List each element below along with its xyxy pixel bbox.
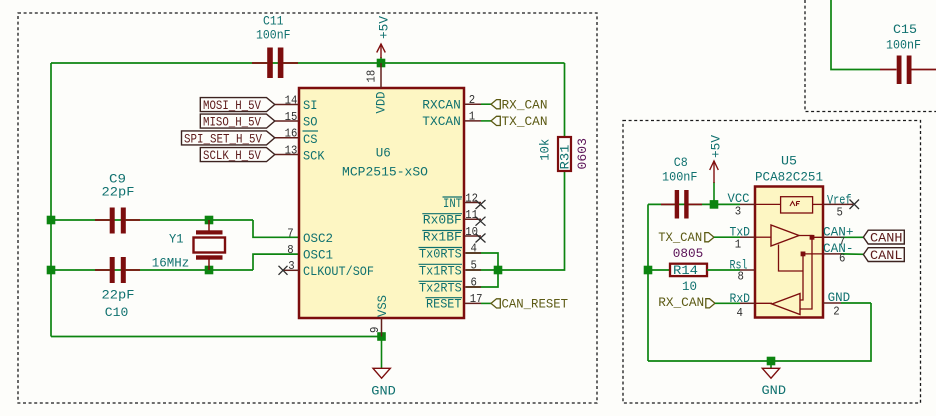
global label CAN_RESET [491,297,568,312]
svg-text:C15: C15 [893,22,917,37]
pin 7 CAN+ [823,224,864,248]
svg-text:VDD: VDD [373,91,388,113]
IC U5 PCA82C251 body [755,187,823,318]
sheet border top-right dashed box (clipped) [805,0,936,112]
IC U6 MCP2515 body [299,88,464,318]
pin 4 RxD [730,291,756,320]
svg-text:TX_CAN: TX_CAN [658,230,702,245]
pin 8 OSC1 [287,243,333,263]
svg-text:16: 16 [285,127,298,141]
pin 1 TxD [730,224,756,251]
svg-text:3: 3 [735,205,741,219]
svg-text:7: 7 [287,226,293,240]
svg-text:MOSI_H_5V: MOSI_H_5V [203,98,261,113]
wire top +5V rail [51,62,565,64]
svg-text:4: 4 [737,306,743,320]
svg-text:+5V: +5V [377,16,392,39]
svg-text:6: 6 [839,252,845,266]
svg-text:CAN_RESET: CAN_RESET [502,297,569,312]
hierarchical label MISO_H_5V [200,114,274,129]
svg-text:SCK: SCK [303,149,325,164]
svg-text:2: 2 [833,305,839,319]
pin 9 VSS [368,295,390,337]
pin 6 CAN- [823,241,864,266]
wire OSC1 link [253,254,299,270]
capacitor C11 [252,13,298,78]
svg-text:16MHz: 16MHz [152,256,190,271]
svg-text:100nF: 100nF [256,28,291,43]
svg-text:6: 6 [471,276,477,290]
svg-text:MISO_H_5V: MISO_H_5V [203,115,261,130]
resistor R31 [538,137,591,171]
svg-text:U6: U6 [376,145,391,160]
global label RX_CAN (right) [658,295,740,310]
svg-text:CLKOUT/SOF: CLKOUT/SOF [303,264,374,279]
svg-text:RXCAN: RXCAN [422,97,461,112]
U5 internal driver triangle [755,225,823,271]
svg-text:C11: C11 [263,13,284,28]
pin 14 SI [275,93,318,113]
svg-text:U5: U5 [781,153,797,168]
pin 17 RESET [426,292,492,312]
global label Rx_CAN [491,97,548,112]
svg-text:2: 2 [469,93,475,107]
svg-text:22pF: 22pF [102,288,135,303]
pin 3 CLKOUT/SOF (no connect) [279,259,375,279]
capacitor C15 [880,22,936,84]
wire left vertical [50,63,52,337]
pin 11 Rx0BF (no connect) [422,208,485,227]
pin 2 RXCAN [422,93,491,112]
svg-text:MCP2515-xSO: MCP2515-xSO [342,164,428,179]
junction C9 left [47,216,56,225]
pin 18 VDD [365,63,389,114]
svg-text:17: 17 [470,292,483,306]
sheet border left dashed box [18,13,597,403]
junction R14 left [644,266,653,275]
wire VCC [714,203,740,205]
svg-text:100nF: 100nF [662,170,698,185]
pin 3 VCC [728,191,756,219]
svg-text:Y1: Y1 [169,231,184,246]
pin 5 Tx1RTS [419,259,482,279]
pin 8 Rs [730,258,756,284]
svg-text:VSS: VSS [375,295,390,317]
power +5V (left) [377,16,392,63]
hierarchical label CANL [863,248,904,263]
svg-text:GND: GND [371,384,396,399]
svg-text:14: 14 [285,93,298,107]
svg-text:15: 15 [285,110,298,124]
ground GND (left) [371,337,396,399]
pin 7 OSC2 [287,226,333,246]
svg-text:TX_CAN: TX_CAN [502,114,548,129]
junction VSS [377,332,386,341]
hierarchical label SCLK_H_5V [200,148,274,163]
pin 13 SCK [275,143,325,163]
wire C9 row to crystal top [51,219,253,221]
svg-text:TXCAN: TXCAN [422,114,461,129]
wire R31 top drop [564,63,566,138]
ground GND (right) [762,361,787,398]
junction GND bottom (U5) [767,357,776,366]
svg-text:RxD: RxD [730,291,751,306]
junction crystal top [205,216,214,225]
svg-text:Rx1BF: Rx1BF [423,229,462,244]
svg-text:3: 3 [288,259,294,273]
sheet border right dashed box (CAN transceiver) [623,121,921,404]
svg-text:C8: C8 [674,155,688,170]
svg-text:9: 9 [368,327,382,333]
global label TX_CAN (right) [658,230,740,245]
svg-text:8: 8 [738,270,744,284]
wire bottom VSS return [51,336,382,338]
svg-text:GND: GND [762,383,787,398]
svg-text:OSC2: OSC2 [303,231,333,246]
junction Tx1RTS [494,266,503,275]
pin 10 Rx1BF (no connect) [422,225,485,244]
pin 12 INT (no connect) [443,192,486,211]
svg-text:1: 1 [469,110,475,124]
U5 internal receiver triangle [755,237,823,314]
svg-text:10: 10 [682,279,697,294]
svg-text:0603: 0603 [575,138,590,170]
wire bottom GND return (U5) [648,303,871,361]
junction C8 / +5V / VCC [710,200,719,209]
U5 internal reference box [755,197,823,213]
hierarchical label CANH [863,230,904,245]
hierarchical label SPI_SET_H_5V [182,131,275,146]
svg-text:RX_CAN: RX_CAN [658,295,704,310]
wire left vertical (U5) [647,204,649,361]
resistor R14 [652,246,740,294]
svg-text:100nF: 100nF [886,38,921,53]
capacitor C10 [95,257,140,320]
wire OSC2 link [253,220,299,237]
wire Tx0RTS jog [466,253,498,287]
pin 15 SO [275,110,318,130]
pin 6 Tx2RTS [419,276,482,296]
svg-text:13: 13 [285,143,298,157]
svg-text:RESET: RESET [426,297,462,312]
svg-text:Rx0BF: Rx0BF [423,213,462,228]
svg-text:1: 1 [735,238,741,252]
svg-text:GND: GND [828,290,851,305]
pin 4 Tx0RTS [419,242,482,262]
capacitor C9 [95,171,140,233]
wire R31 bottom to Tx1RTS [466,170,565,270]
svg-text:RX_CAN: RX_CAN [502,97,548,112]
wire C8 rail [648,203,714,205]
crystal Y1 [152,220,225,271]
svg-text:SO: SO [303,114,318,129]
svg-text:+5V: +5V [709,135,724,158]
svg-text:CS: CS [303,132,318,147]
junction at +5V / VDD [377,59,386,68]
svg-text:SPI_SET_H_5V: SPI_SET_H_5V [184,131,262,146]
svg-text:10: 10 [465,225,478,239]
svg-text:C10: C10 [105,305,129,320]
svg-text:Tx2RTS: Tx2RTS [419,280,462,295]
svg-text:5: 5 [837,206,843,220]
svg-text:4: 4 [471,242,477,256]
junction C10 left [47,266,56,275]
svg-text:SI: SI [303,98,318,113]
svg-text:18: 18 [365,70,379,83]
global label Tx_CAN [491,114,548,129]
pin 1 TXCAN [422,110,491,129]
wire top-right to C15 [831,0,880,70]
pin 5 Vref (no connect) [823,192,859,219]
capacitor C8 [661,155,702,218]
wire C10 row to crystal bottom [51,269,253,271]
svg-text:22pF: 22pF [102,185,135,200]
pin 16 CS (active low) [275,127,318,147]
svg-text:12: 12 [465,192,478,206]
svg-text:5: 5 [471,259,477,273]
svg-text:INT: INT [443,196,462,211]
power +5V (right) [709,135,724,205]
svg-text:R14: R14 [673,263,698,278]
U5 internal junction CAN+ [810,235,815,240]
svg-text:SCLK_H_5V: SCLK_H_5V [203,148,261,163]
svg-text:R31: R31 [558,144,573,169]
junction crystal bottom [205,266,214,275]
svg-text:CANL: CANL [870,248,903,263]
hierarchical label MOSI_H_5V [200,98,274,113]
svg-text:0805: 0805 [673,246,704,261]
svg-text:Tx1RTS: Tx1RTS [419,263,462,278]
svg-text:11: 11 [465,208,478,222]
svg-text:PCA82C251: PCA82C251 [755,169,823,184]
svg-text:8: 8 [287,243,293,257]
U5 internal junction CAN- [801,252,806,257]
pin 2 GND [823,290,871,318]
svg-text:OSC1: OSC1 [303,248,333,263]
svg-text:CANH: CANH [870,231,903,246]
svg-text:10k: 10k [538,139,553,161]
svg-text:Tx0RTS: Tx0RTS [419,246,462,261]
